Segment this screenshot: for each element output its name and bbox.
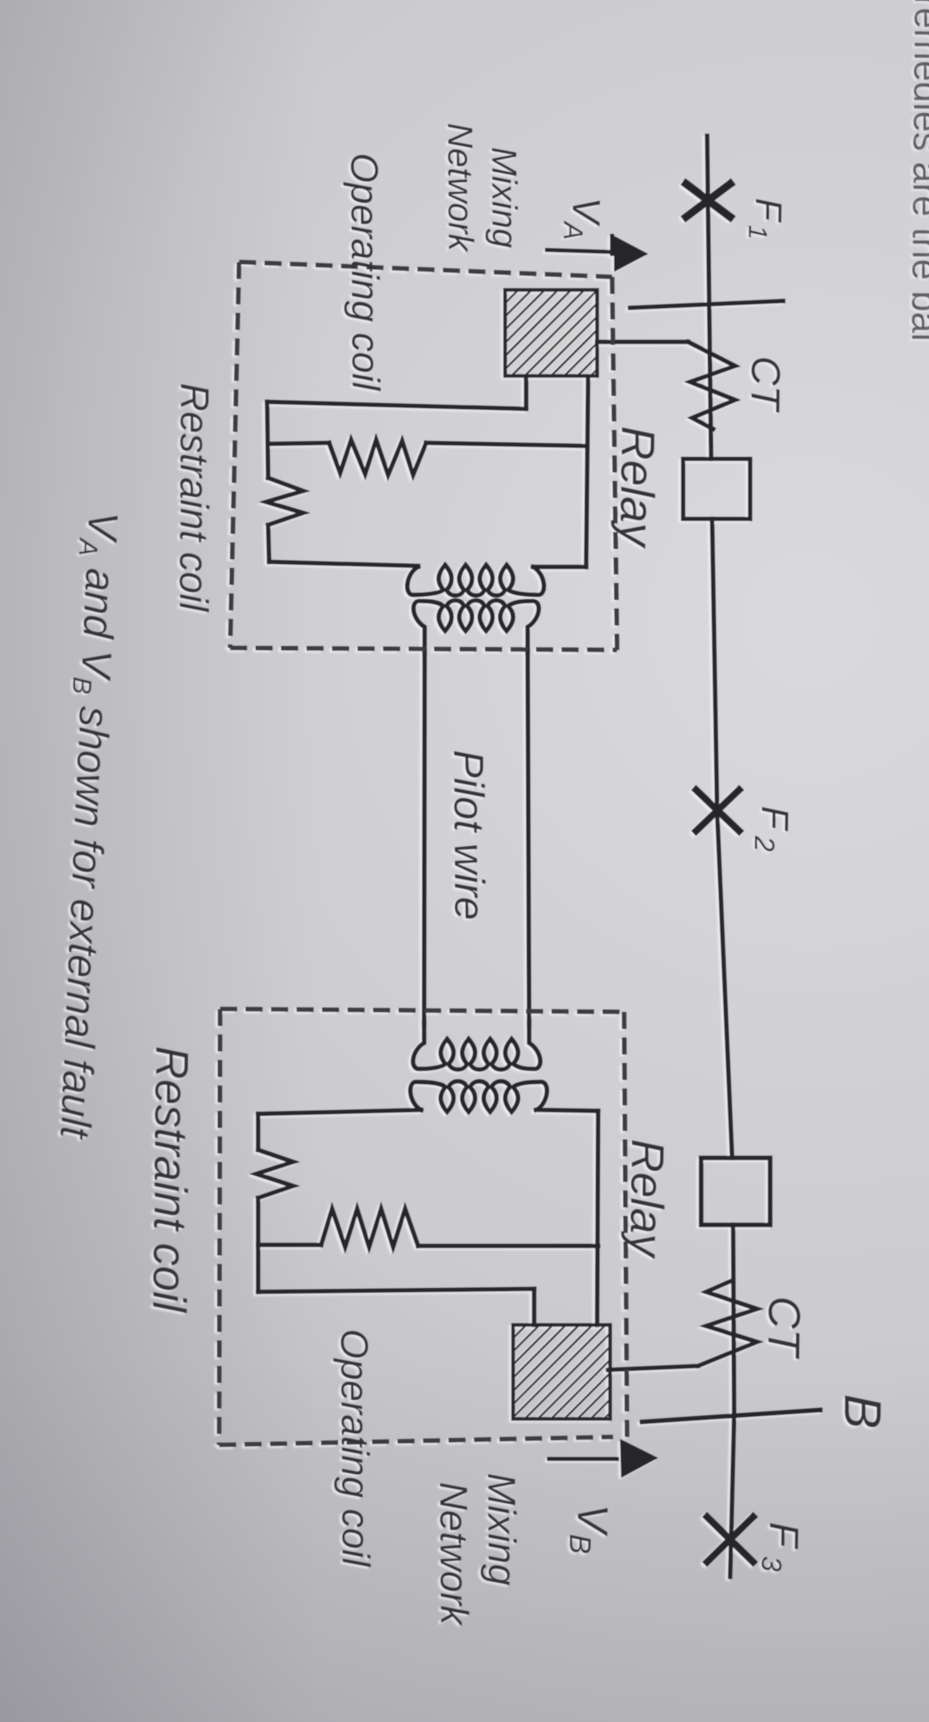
svg-text:Mixing: Mixing [484, 147, 524, 249]
wire relay A left rail lower (V2) [268, 525, 269, 562]
svg-text:remedies are the bal: remedies are the bal [903, 0, 929, 342]
arrow VA pointer tail [545, 250, 611, 252]
arrow VB pointer tail [547, 1457, 619, 1461]
svg-text:1: 1 [743, 225, 773, 240]
svg-text:Network: Network [431, 1482, 475, 1628]
pilot wire left conductor [422, 652, 427, 1025]
relay B dashed boundary left edge [219, 1009, 220, 1445]
wire relay B: bottom rail to mixing box top (wire A2) [532, 1289, 536, 1325]
relay B dashed boundary bottom edge [219, 1437, 613, 1445]
arrow VA head [614, 236, 648, 272]
relay A dashed boundary bottom edge [230, 648, 617, 650]
svg-text:Restraint coil: Restraint coil [171, 383, 216, 613]
svg-text:Mixing: Mixing [479, 1473, 523, 1586]
svg-text:B: B [563, 1534, 596, 1554]
wire relay A transformer right lead [533, 565, 586, 569]
operating/restraint spring coil relay A (3-peak zigzag) [266, 478, 303, 525]
svg-text:Operating coil: Operating coil [342, 153, 387, 392]
svg-text:V: V [568, 1504, 616, 1538]
node bus B tick [642, 1410, 820, 1422]
svg-text:Restraint coil: Restraint coil [143, 1046, 198, 1314]
mixing network box B (hatched) [513, 1325, 610, 1419]
svg-text:Pilot wire: Pilot wire [445, 750, 493, 921]
wire CT B secondary tap to mixing network B [608, 1366, 698, 1370]
breaker box B on line [701, 1158, 770, 1225]
svg-text:CT: CT [758, 1296, 810, 1360]
relay A dashed boundary top edge [239, 262, 612, 277]
operating/restraint spring coil relay B (3-peak zigzag) [256, 1150, 293, 1198]
resistor WWW relay A zigzag [329, 440, 426, 475]
mixing network box A (hatched) [505, 290, 597, 376]
resistor WWW relay A right lead [426, 443, 585, 446]
relay A dashed boundary right edge [612, 277, 617, 650]
wire relay A: mixing box to top rail (wire A) [524, 377, 528, 407]
svg-text:2: 2 [749, 835, 780, 852]
svg-text:F: F [761, 1522, 807, 1550]
arrow VA tick mark [610, 234, 614, 256]
wire relay A left rail upper (V1) [267, 402, 268, 478]
wire relay B right rail down to mixing box [597, 1111, 598, 1325]
transformer relay B primary winding (lower) [410, 1081, 547, 1112]
resistor WWW relay A (coil) left lead [268, 443, 329, 444]
wire relay B top rail left part [258, 1110, 421, 1114]
wire transmission line middle segment (breaker A to breaker B through F2) [712, 519, 732, 1158]
svg-text:F: F [748, 198, 789, 224]
svg-text:Relay: Relay [620, 1139, 674, 1260]
svg-text:Network: Network [440, 123, 480, 253]
fault X mark F3 [707, 1517, 753, 1562]
breaker box A on line [683, 459, 750, 519]
wire transmission line upper segment (bus A end, F1 to breaker A) [707, 136, 711, 459]
svg-text:CT: CT [742, 356, 789, 414]
node bus A tick [630, 301, 783, 308]
pilot wire right conductor [528, 650, 530, 1025]
wire relay B left rail upper [256, 1114, 260, 1150]
transformer relay B secondary winding (upper, pilot side) [413, 1022, 540, 1070]
CT B zigzag symbol [698, 1281, 757, 1366]
wire relay B top rail right part [536, 1110, 598, 1111]
svg-text:A: A [558, 220, 588, 240]
transformer relay A primary winding (upper) [407, 565, 544, 596]
CT A zigzag symbol [688, 342, 735, 429]
svg-text:Operating coil: Operating coil [332, 1329, 377, 1568]
transformer relay A secondary winding (lower, pilot side) [413, 600, 538, 655]
arrow VB head [620, 1439, 658, 1478]
svg-text:F: F [753, 806, 795, 832]
wire transmission line lower segment (breaker B to F3 end) [730, 1225, 734, 1577]
wire relay B left rail lower [256, 1198, 260, 1292]
wire relay A top rail H1 [267, 402, 526, 409]
resistor WWW relay B left lead [258, 1243, 321, 1247]
wire relay A right rail (mixing box to transformer) [586, 377, 588, 567]
svg-text:Relay: Relay [610, 426, 665, 549]
fault X mark F1 [686, 184, 730, 217]
svg-text:B: B [833, 1394, 891, 1429]
relay B dashed boundary right edge [624, 1012, 627, 1440]
resistor WWW relay B zigzag [321, 1209, 418, 1247]
fault X mark F2 [696, 790, 739, 831]
svg-text:3: 3 [756, 1556, 787, 1572]
relay B dashed boundary top edge [220, 1009, 624, 1012]
resistor WWW relay B right lead [418, 1244, 598, 1248]
wire relay B bottom rail H3 [258, 1289, 534, 1292]
wire CT A secondary tap to mixing network A [597, 340, 688, 344]
wire relay A bottom rail H2 to transformer [269, 562, 418, 566]
relay A dashed boundary left edge [230, 262, 239, 648]
